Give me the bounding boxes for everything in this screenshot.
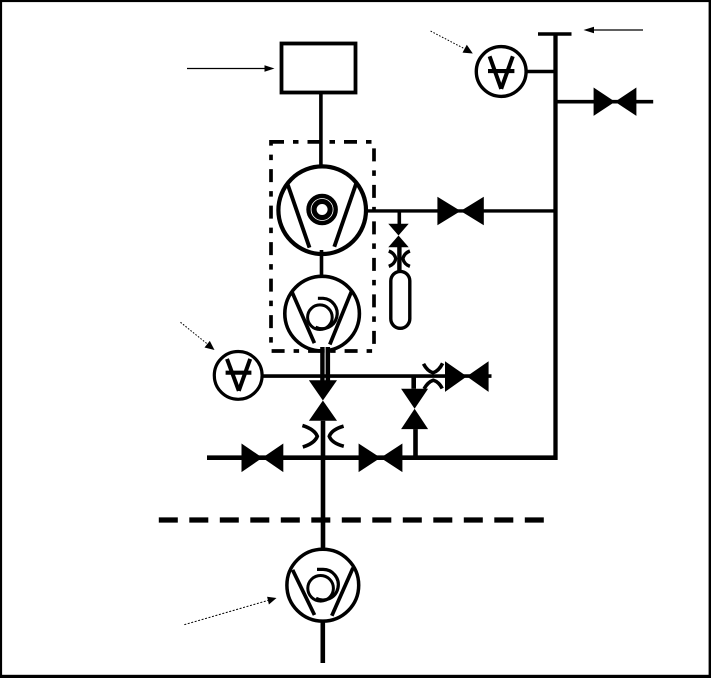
arrow to PI-2: [431, 31, 473, 53]
battery-limit dashed line: [159, 517, 554, 522]
valve V8 (on branch at node C): [401, 389, 428, 429]
arrow to instrument PI-1: [181, 322, 215, 350]
right header vertical line: [553, 34, 557, 460]
instrument PI-2 (top right): [476, 47, 526, 97]
pump P2: [285, 276, 360, 351]
valve V1 on outlet line: [437, 197, 483, 225]
header top cap: [538, 32, 572, 36]
wire PI-2 to header: [526, 70, 556, 74]
wire V8 to bottom line: [413, 429, 418, 458]
pump P3 suction line: [320, 621, 325, 663]
branch line at node C down: [411, 376, 416, 389]
flexible joint F3 (gauge line, horizontal): [424, 363, 443, 389]
arrow to drive box: [187, 65, 275, 71]
capsule (pulsation damper): [391, 271, 410, 328]
valve V3 (on gauge line): [445, 361, 489, 392]
bottom distribution line: [207, 455, 558, 460]
gauge line PI-1 to east: [262, 374, 492, 378]
pump P1: [278, 166, 366, 254]
pump discharge double line: [323, 347, 328, 381]
valve V2 (top right): [594, 88, 637, 116]
valve V7 (main discharge, below pumps): [309, 380, 337, 420]
wire header to valve V2: [556, 100, 654, 104]
flexible joint F2 (main line): [302, 426, 343, 448]
drive box M1: [282, 44, 356, 93]
wire drive box to pump P1: [319, 93, 323, 168]
valve V5: [359, 444, 403, 473]
valve V4: [242, 444, 284, 473]
wire branch stub at node B: [397, 211, 401, 226]
main discharge line: [321, 421, 326, 550]
flexible joint F1 (on gauge branch): [389, 251, 410, 266]
wire P1 to P2: [320, 250, 324, 278]
wire valve V6 to capsule: [397, 246, 401, 272]
instrument PI-1 (left): [214, 352, 262, 400]
arrow to pump P3: [184, 597, 276, 625]
arrow at header inlet: [584, 27, 644, 34]
pump P1 outlet line: [364, 209, 556, 212]
pump unit boundary (dash-dot box): [271, 142, 374, 351]
pump P3: [287, 549, 359, 621]
valve V6 (small, on gauge branch): [388, 224, 408, 247]
